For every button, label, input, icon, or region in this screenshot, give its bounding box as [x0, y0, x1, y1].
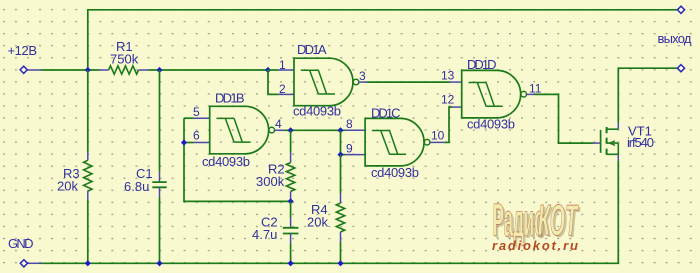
pin 1 lead: [278, 69, 294, 71]
svg-text:8: 8: [346, 117, 353, 131]
pin 10 lead: [430, 141, 445, 143]
op-amp gate DD1B body: [210, 106, 275, 154]
wire: rail node down to R3: [87, 70, 89, 152]
wire: pin9 link: [341, 154, 346, 156]
wire: pin5 link: [184, 117, 194, 119]
VT1 source pin lead: [617, 154, 619, 161]
svg-text:750k: 750k: [110, 52, 139, 67]
VT1 drain pin lead: [617, 122, 619, 129]
pin 9 lead: [345, 154, 365, 156]
capacitor C2 lead bottom: [290, 234, 292, 244]
terminal GND: [20, 260, 27, 267]
pin 6 lead: [194, 142, 210, 144]
junction DD1A input node: [265, 67, 271, 73]
svg-text:DD1C: DD1C: [371, 106, 401, 121]
wire: DD1A pin1 link: [268, 69, 278, 71]
resistor R4 lead bottom: [340, 232, 342, 242]
pin 13 lead: [449, 81, 462, 83]
svg-text:3: 3: [359, 69, 366, 83]
svg-text:выход: выход: [658, 31, 692, 46]
resistor R2 lead bottom: [290, 191, 292, 201]
junction C2/GND rail: [288, 260, 294, 266]
wire: DD1A out to DD1D pin13: [367, 81, 449, 83]
svg-text:+12В: +12В: [8, 43, 38, 58]
resistor R4: [336, 203, 344, 232]
resistor R2: [286, 163, 294, 192]
wire: R3 to GND rail: [87, 200, 89, 263]
wire: DD1A pin2 link: [268, 70, 278, 94]
transistor VT1 (irf540 N-MOSFET): [601, 127, 619, 155]
junction R1/rail node: [85, 67, 91, 73]
svg-text:10: 10: [431, 129, 445, 143]
svg-text:4: 4: [275, 117, 282, 131]
op-amp gate DD1C body: [365, 118, 430, 165]
svg-text:2: 2: [279, 82, 286, 96]
svg-text:6: 6: [193, 129, 200, 143]
junction pin8 node: [337, 127, 343, 133]
svg-text:cd4093b: cd4093b: [371, 165, 419, 180]
junction DD1B pin6 node: [181, 139, 187, 145]
wire: +12V to R1: [41, 69, 99, 71]
junction C1/GND rail: [156, 260, 162, 266]
wire: drain up and to output terminal: [618, 68, 677, 122]
wire: DD1C out up to DD1D pin12: [445, 107, 452, 142]
junction R2 top node: [288, 127, 294, 133]
resistor R1: [109, 66, 139, 74]
wire: R2 top: [290, 130, 292, 152]
svg-text:20k: 20k: [307, 215, 328, 230]
svg-text:GND: GND: [8, 236, 34, 251]
svg-text:cd4093b: cd4093b: [293, 104, 341, 119]
svg-text:cd4093b: cd4093b: [202, 154, 250, 169]
capacitor C1 lead bottom: [159, 187, 161, 197]
capacitor C2 lead top: [290, 218, 292, 228]
pin 5 lead: [194, 117, 210, 119]
svg-text:13: 13: [441, 69, 455, 83]
pin 3 lead: [359, 81, 367, 83]
GND terminal lead: [28, 262, 42, 264]
op-amp gate DD1A body: [294, 58, 359, 105]
wire: pin9 node down to R4: [340, 155, 342, 193]
junction R3/GND rail: [85, 260, 91, 266]
svg-text:6.8u: 6.8u: [124, 179, 149, 194]
resistor R2 lead top: [290, 153, 292, 163]
terminal output: [677, 65, 684, 72]
pin 12 lead: [452, 106, 462, 108]
capacitor C2: [283, 228, 299, 234]
wire: R4 to GND rail: [340, 242, 342, 263]
wire: DD1B out to DD1C pin8: [284, 129, 345, 131]
svg-text:DD1D: DD1D: [467, 57, 497, 72]
resistor R3 lead top: [87, 152, 89, 161]
wire: C2 top: [290, 201, 292, 217]
terminal top-right: [677, 6, 684, 13]
wire: C1 node down: [159, 70, 161, 172]
svg-text:DD1A: DD1A: [297, 42, 327, 57]
resistor R3 lead bottom: [87, 191, 89, 200]
svg-text:1: 1: [279, 58, 286, 72]
wire: pin6 link: [184, 142, 194, 144]
svg-text:cd4093b: cd4093b: [467, 117, 515, 132]
wire: pin8 node down to pin9: [340, 130, 342, 154]
svg-text:12: 12: [441, 93, 455, 107]
svg-text:300k: 300k: [256, 174, 285, 189]
svg-text:5: 5: [193, 105, 200, 119]
resistor R1 lead right: [139, 69, 150, 71]
junction C1 node: [156, 67, 162, 73]
watermark Радио КОТ: [493, 196, 581, 248]
svg-text:radiokot.ru: radiokot.ru: [492, 238, 580, 253]
svg-text:DD1B: DD1B: [215, 91, 245, 106]
wire: C1 to GND rail: [159, 198, 161, 264]
wire: DD1D out to MOSFET gate: [535, 94, 593, 143]
gate lead: [593, 142, 600, 144]
junction pin9 node: [337, 152, 343, 158]
capacitor C1 lead top: [159, 172, 161, 182]
capacitor C1: [152, 182, 166, 187]
pin 8 lead: [345, 129, 365, 131]
pin 11 lead: [527, 93, 536, 95]
junction R4/GND rail: [337, 260, 343, 266]
terminal +12V: [20, 66, 27, 73]
resistor R4 lead top: [340, 193, 342, 203]
pin 4 lead: [275, 129, 285, 131]
resistor R3: [84, 160, 92, 191]
svg-text:irf540: irf540: [627, 135, 654, 150]
svg-text:20k: 20k: [57, 179, 78, 194]
op-amp gate DD1D body: [462, 70, 527, 118]
wire: DD1B input vertical + feedback: [184, 118, 291, 201]
wire: +12V terminal lead: [27, 69, 41, 71]
wire: top +12V rail: [88, 10, 677, 70]
resistor R1 lead left: [99, 69, 109, 71]
svg-text:4.7u: 4.7u: [252, 227, 277, 242]
wire: C2 to GND rail: [290, 244, 292, 264]
wire: R1 to C1 node: [149, 69, 268, 71]
wire: source down to GND rail: [42, 161, 619, 263]
pin 2 lead: [278, 93, 294, 95]
svg-text:9: 9: [346, 142, 353, 156]
svg-text:11: 11: [529, 82, 542, 96]
junction R2/C2/feedback node: [288, 198, 294, 204]
